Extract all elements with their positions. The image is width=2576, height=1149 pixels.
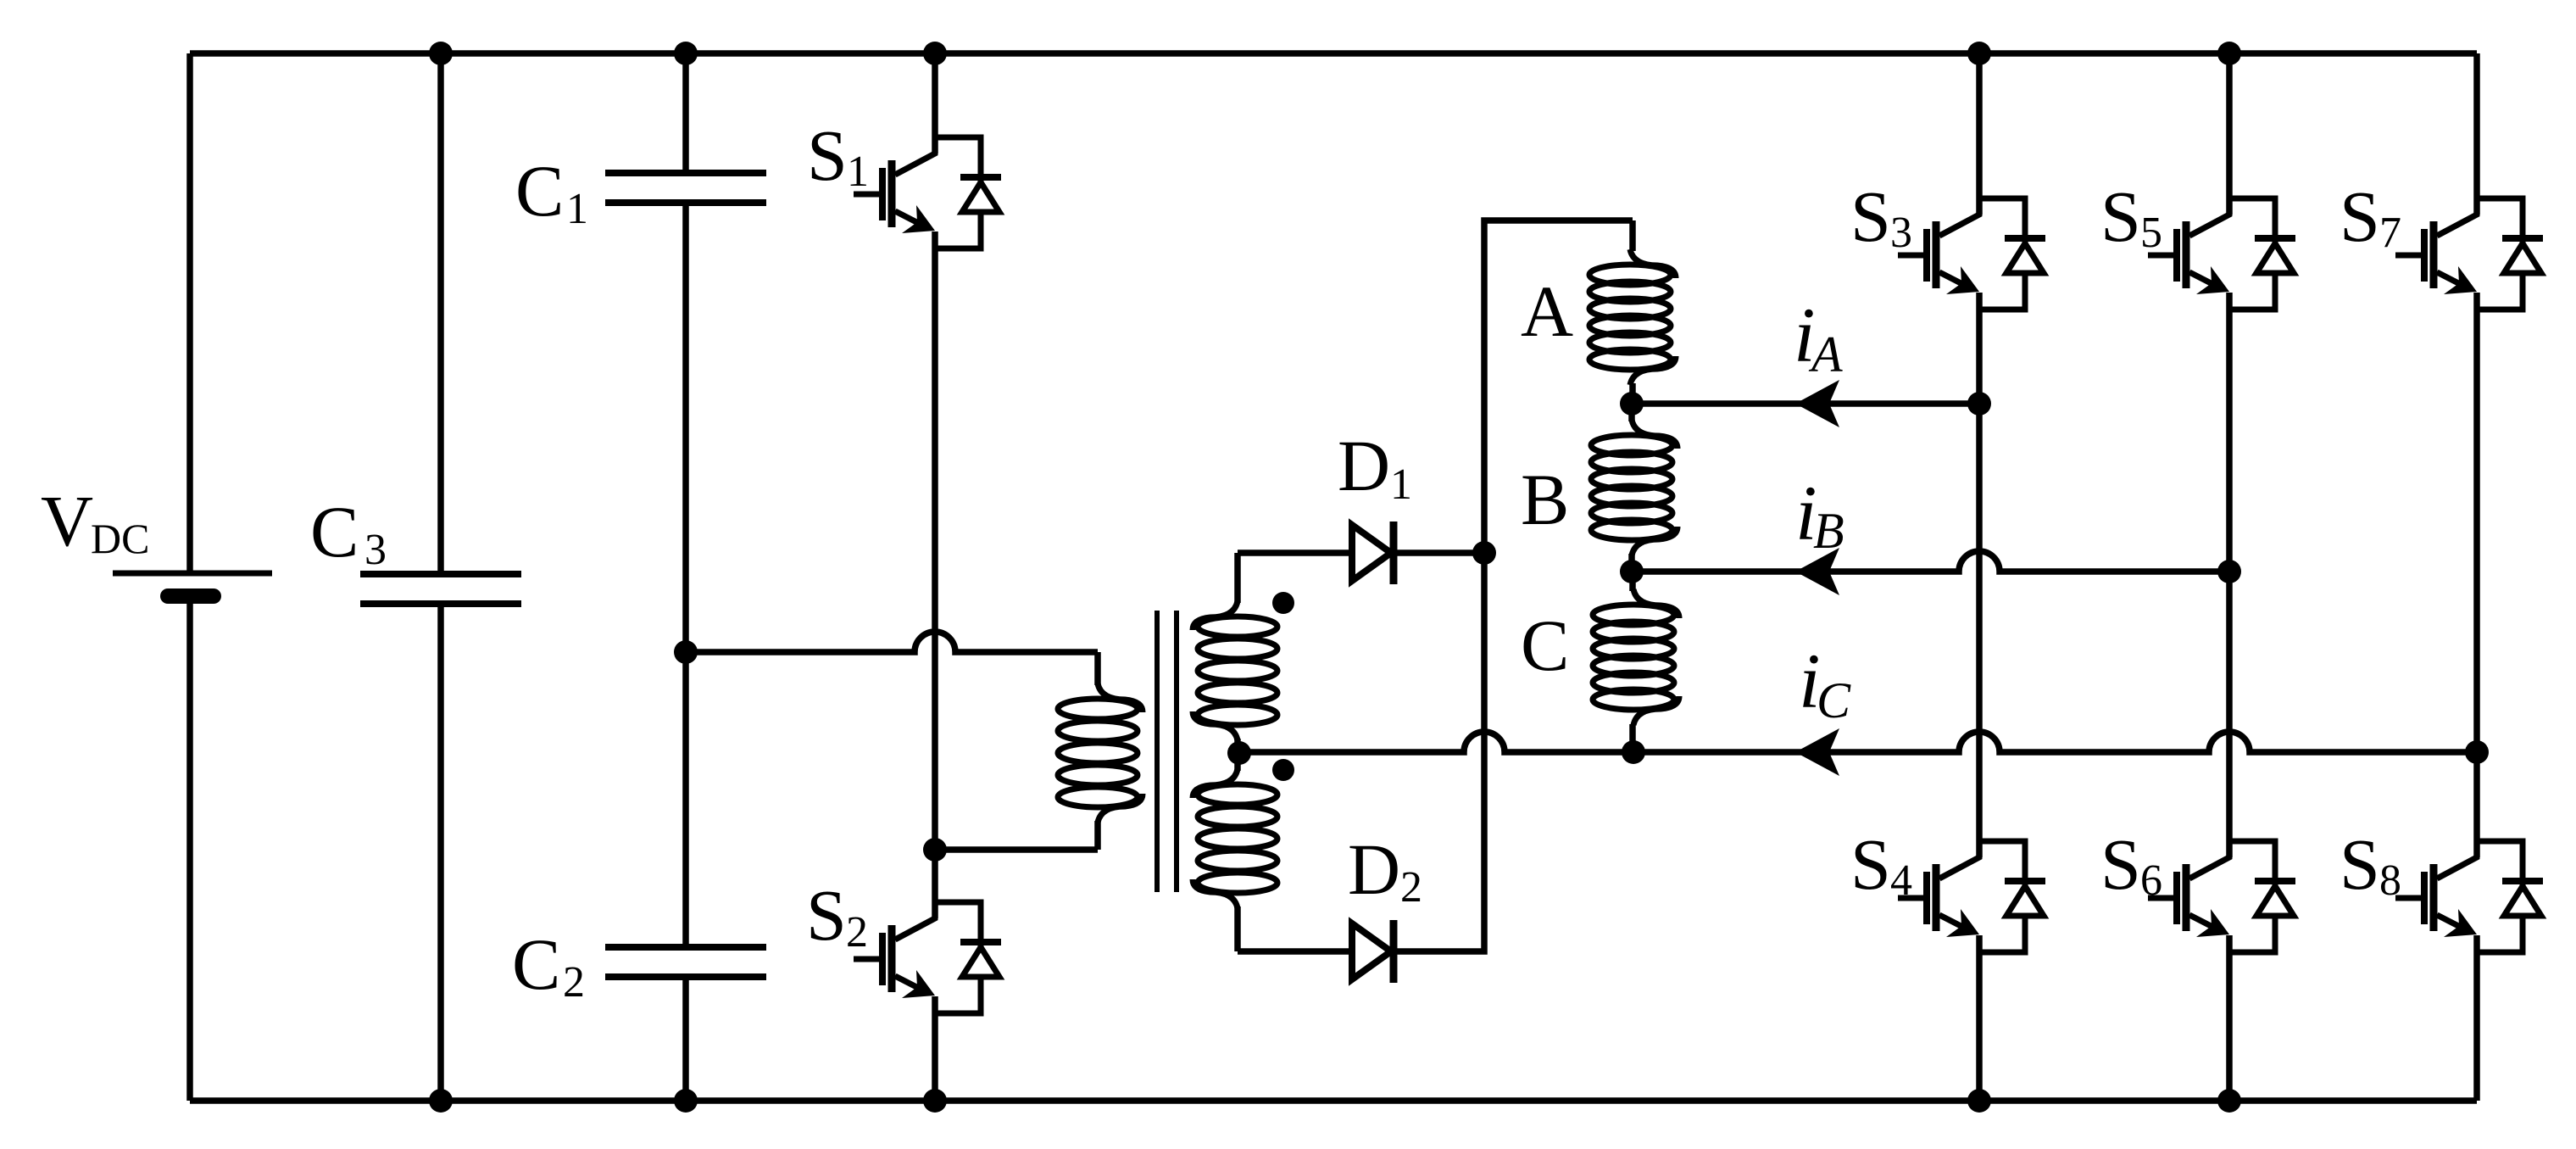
svg-text:3: 3 xyxy=(1890,209,1912,257)
svg-text:B: B xyxy=(1521,459,1569,540)
svg-text:C: C xyxy=(512,923,560,1005)
svg-text:S: S xyxy=(2340,176,2380,257)
svg-text:S: S xyxy=(2340,823,2380,905)
svg-text:C: C xyxy=(515,150,564,231)
svg-text:S: S xyxy=(1850,823,1891,905)
svg-text:1: 1 xyxy=(847,148,869,196)
svg-text:4: 4 xyxy=(1890,856,1912,905)
svg-text:C: C xyxy=(1817,672,1851,728)
svg-text:S: S xyxy=(2100,823,2141,905)
svg-text:D: D xyxy=(1338,425,1390,506)
svg-text:2: 2 xyxy=(1400,863,1422,912)
svg-text:C: C xyxy=(1521,605,1569,686)
svg-text:B: B xyxy=(1813,503,1844,559)
svg-text:5: 5 xyxy=(2140,209,2162,257)
svg-text:C: C xyxy=(310,491,359,572)
svg-text:6: 6 xyxy=(2140,856,2162,905)
svg-text:S: S xyxy=(1850,176,1891,257)
svg-text:8: 8 xyxy=(2379,856,2401,905)
svg-text:3: 3 xyxy=(364,526,387,574)
svg-text:DC: DC xyxy=(91,515,149,562)
svg-text:A: A xyxy=(1808,326,1843,382)
svg-text:S: S xyxy=(806,874,847,956)
svg-text:S: S xyxy=(2100,176,2141,257)
svg-text:S: S xyxy=(807,114,848,196)
svg-text:V: V xyxy=(41,480,93,561)
svg-text:2: 2 xyxy=(563,958,585,1007)
svg-text:1: 1 xyxy=(1390,460,1412,509)
svg-text:A: A xyxy=(1521,271,1573,352)
svg-text:7: 7 xyxy=(2379,209,2401,257)
svg-text:2: 2 xyxy=(846,908,868,957)
svg-text:1: 1 xyxy=(566,185,588,233)
svg-text:D: D xyxy=(1348,828,1400,910)
